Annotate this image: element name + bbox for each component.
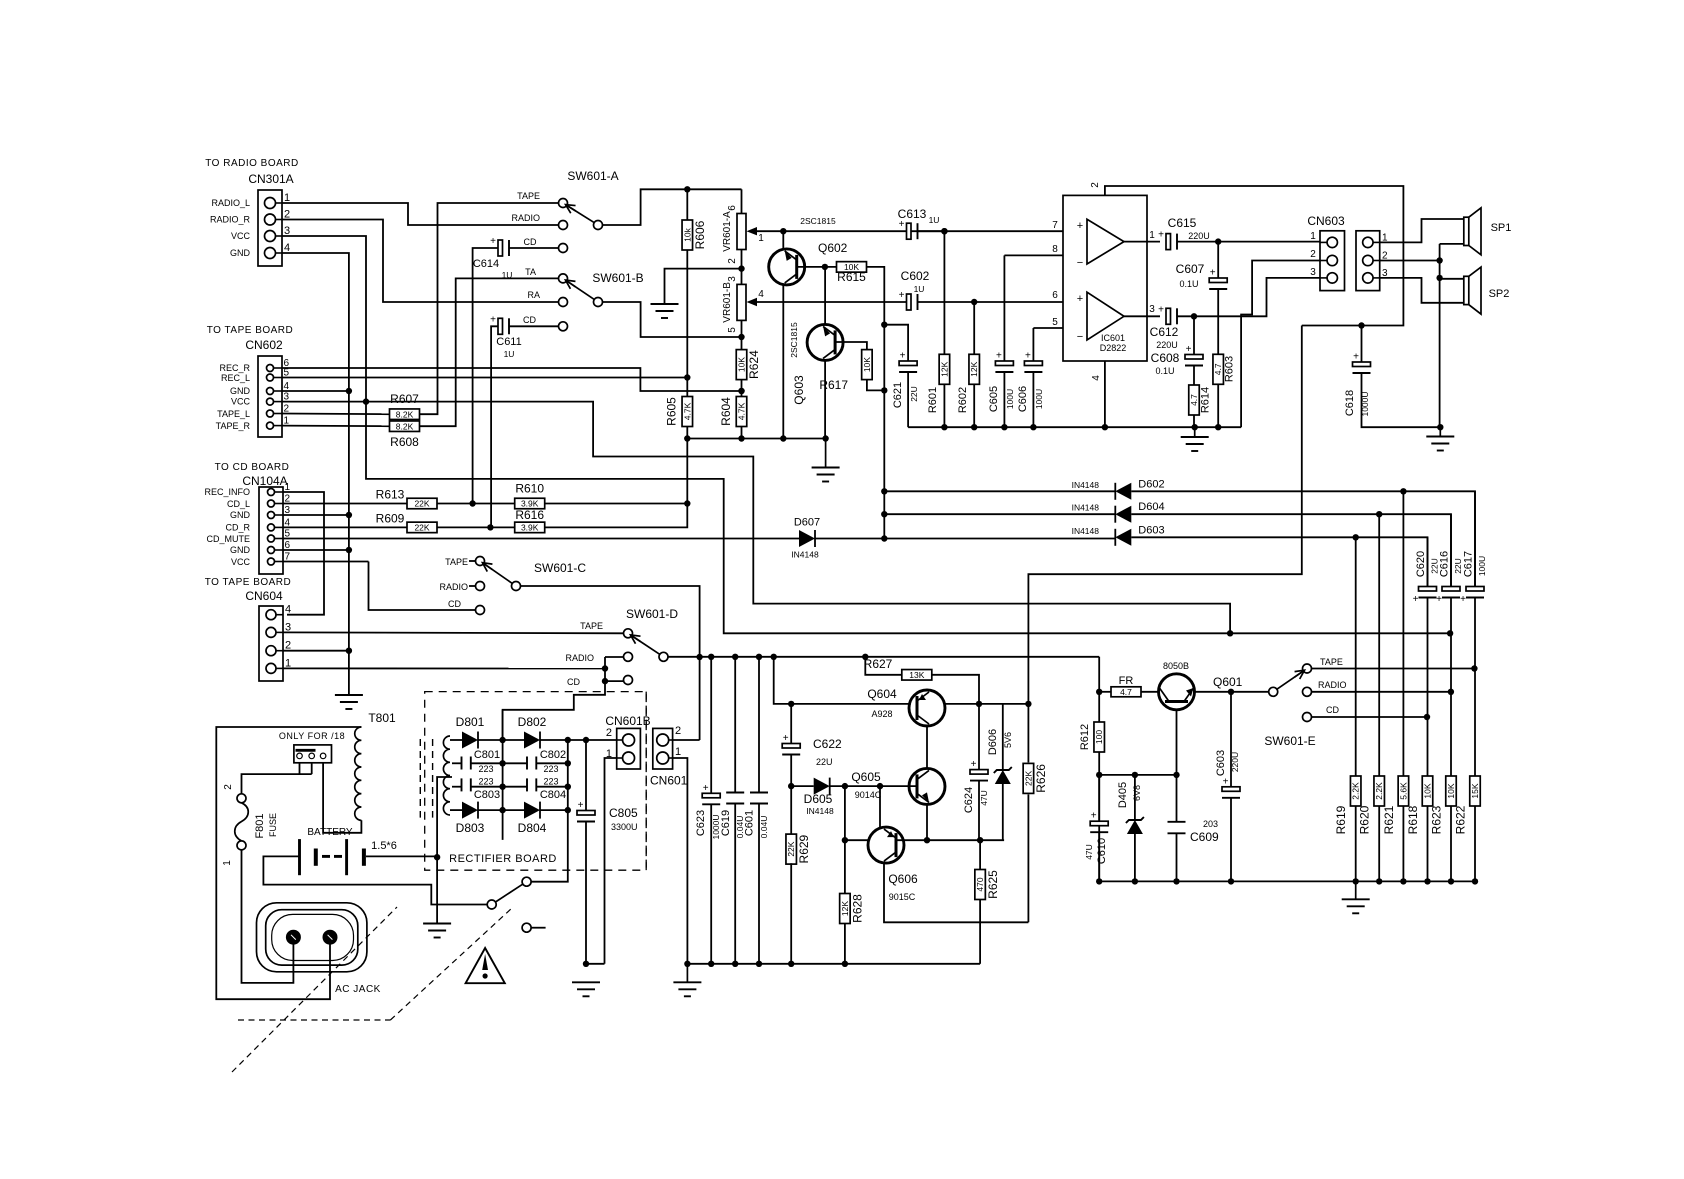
wire Q605 emitter — [926, 804, 928, 840]
wire line A — [478, 737, 524, 743]
svg-text:22K: 22K — [1023, 771, 1033, 786]
wire CN603B pin2 common — [1380, 260, 1440, 262]
svg-text:1U: 1U — [914, 284, 925, 294]
text R619 — [1334, 805, 1348, 834]
wire pin1 out — [1124, 241, 1160, 243]
svg-text:TO CD BOARD: TO CD BOARD — [215, 462, 290, 473]
transformer T801 primary — [355, 727, 362, 820]
wire R602 bottom — [973, 384, 975, 427]
text ONLY FOR /18 — [279, 731, 345, 741]
svg-text:10K: 10K — [737, 357, 747, 372]
svg-text:C802: C802 — [540, 749, 566, 761]
svg-text:IN4148: IN4148 — [1072, 526, 1100, 536]
wire wiper4 line — [752, 301, 908, 303]
text FR — [1119, 675, 1134, 687]
svg-text:22K: 22K — [786, 841, 796, 856]
wire SW601-A common to R606/VR601-A — [603, 186, 742, 225]
svg-text:100U: 100U — [1034, 389, 1044, 409]
wire REC_R — [282, 368, 745, 394]
svg-text:CN601B: CN601B — [605, 714, 650, 728]
wire tape stub sw-c — [469, 560, 476, 562]
wire D604 line — [884, 513, 1115, 515]
svg-text:R629: R629 — [797, 834, 811, 863]
wire jumper stub2 — [311, 763, 313, 774]
svg-text:R618: R618 — [1406, 805, 1420, 834]
diode D603 — [1072, 524, 1165, 546]
wire C608 to R614 — [1193, 366, 1195, 386]
wire Q604 to Q605 — [926, 726, 928, 768]
svg-text:R613: R613 — [376, 488, 405, 502]
wire jumper stub3 to primary — [323, 763, 361, 833]
svg-text:SW601-B: SW601-B — [592, 271, 643, 285]
dashed box RECTIFIER BOARD — [425, 692, 647, 871]
svg-text:0.1U: 0.1U — [1179, 279, 1198, 289]
svg-text:8.2K: 8.2K — [396, 421, 414, 431]
svg-text:RADIO_L: RADIO_L — [211, 198, 250, 208]
capacitor C607 — [1176, 262, 1228, 289]
wire R628 bottom — [844, 924, 846, 964]
svg-text:+: + — [1210, 268, 1216, 279]
transformer T801 core — [420, 739, 432, 818]
svg-text:1: 1 — [758, 233, 764, 244]
pin label CD_MUTE — [206, 534, 250, 544]
text D804 — [518, 821, 547, 835]
diode D803 — [462, 802, 478, 819]
wire R619 column — [1355, 537, 1357, 776]
capacitor C613 — [898, 207, 940, 239]
svg-text:+: + — [1413, 594, 1419, 605]
resistor R605 — [665, 397, 693, 427]
svg-text:+: + — [971, 759, 977, 770]
contact SW601-D RADIO — [624, 652, 633, 661]
text R603 — [1224, 356, 1236, 382]
wire SP common vertical — [1436, 244, 1442, 427]
wire C605 bottom — [1003, 372, 1005, 427]
wire D605 to Q605 base — [830, 783, 916, 789]
svg-text:D2822: D2822 — [1100, 343, 1127, 353]
wire FR to Q601 — [1141, 691, 1159, 693]
power switch contact A — [522, 877, 531, 886]
text CN602 — [245, 338, 283, 352]
text 1.5*6 — [371, 840, 397, 852]
wire R616 out up — [545, 504, 688, 528]
pin 4 wiper — [758, 289, 764, 300]
fuse F801 terminal 2 — [237, 794, 246, 803]
dashed separator CN601 — [645, 692, 647, 871]
svg-text:C618: C618 — [1344, 390, 1356, 416]
pin label TAPE_R — [216, 421, 251, 431]
svg-text:+: + — [783, 733, 789, 744]
text C803 — [474, 789, 500, 801]
svg-text:−: − — [1077, 257, 1083, 269]
resistor R625 — [975, 870, 1000, 900]
svg-text:1U: 1U — [504, 349, 515, 359]
wire C801 line b — [471, 762, 503, 764]
text FUSE — [268, 813, 278, 837]
contact SW601-B RA — [559, 298, 568, 307]
svg-text:C619: C619 — [720, 810, 732, 836]
zener D405 — [1126, 817, 1144, 834]
svg-text:+: + — [578, 800, 584, 811]
wire pin4 down — [1104, 361, 1106, 427]
svg-text:GND: GND — [230, 510, 251, 520]
pot VR601-B — [737, 284, 746, 320]
svg-text:223: 223 — [478, 777, 493, 787]
wire VR601-A bottom to junction — [738, 250, 744, 285]
resistor R620 — [1374, 776, 1385, 806]
wire secondary bottom to D803 — [450, 809, 462, 811]
wire CD_L — [283, 503, 407, 505]
svg-text:1: 1 — [1310, 231, 1316, 242]
svg-text:R616: R616 — [515, 508, 544, 522]
power switch contact NC — [522, 923, 531, 932]
svg-text:R610: R610 — [515, 482, 544, 496]
label RADIO line cn604 — [565, 653, 594, 663]
wire SW601-D riser to rectifier rail — [503, 657, 609, 740]
wire C618 stem — [1361, 326, 1363, 363]
svg-text:8.2K: 8.2K — [396, 409, 414, 419]
wire Q606 emitter up — [879, 786, 881, 827]
wire D602 line right — [1131, 488, 1475, 586]
wire VCC7 down to SW601-C cd — [369, 562, 476, 611]
wire R607 to SW601-A tape — [419, 203, 558, 414]
text VR601-B — [722, 282, 733, 323]
pin 4 rot — [1091, 375, 1102, 381]
wire C803 line — [452, 786, 462, 788]
wire CD line sw-e — [1312, 714, 1431, 720]
wire C621 top link — [884, 325, 908, 361]
svg-text:10k: 10k — [682, 227, 692, 241]
pin 3 vr601b — [727, 276, 738, 282]
svg-text:4.7K: 4.7K — [737, 402, 747, 420]
connector CN601B — [617, 728, 641, 769]
capacitor C621 — [892, 351, 919, 409]
svg-text:C803: C803 — [474, 789, 500, 801]
wire FR left stub — [1099, 691, 1111, 693]
resistor R609 — [376, 511, 437, 532]
svg-text:REC_L: REC_L — [221, 373, 250, 383]
pin 1 fuse — [222, 860, 233, 866]
svg-text:1: 1 — [222, 860, 233, 866]
wire CN601B pin1 down — [605, 758, 617, 964]
dashed callout diagonal left — [232, 907, 397, 1072]
svg-text:C614: C614 — [473, 258, 499, 270]
diode D602 — [1072, 478, 1165, 500]
svg-text:+: + — [1077, 293, 1083, 305]
diode D802 — [524, 732, 540, 749]
wire R627 right down — [932, 675, 979, 704]
capacitor C601 — [744, 793, 770, 839]
wire R626 bottom — [1027, 794, 1029, 922]
connector CN603 A — [1320, 231, 1345, 291]
svg-text:C601: C601 — [744, 810, 756, 836]
contact SW601-A common — [594, 221, 603, 230]
svg-text:SW601-D: SW601-D — [626, 607, 678, 621]
svg-text:GND: GND — [230, 248, 251, 258]
ground q603 emitter — [812, 439, 840, 482]
capacitor C804 — [527, 778, 536, 791]
ground main left bus — [335, 695, 363, 709]
svg-text:+: + — [1025, 351, 1031, 362]
wire Q606 base line — [896, 837, 1004, 843]
contact SW601-A CD — [559, 244, 568, 253]
svg-text:GND: GND — [230, 386, 251, 396]
wire R629 bottom — [790, 863, 792, 964]
switch blade SW601-D — [631, 635, 660, 654]
label RADIO sw-c — [439, 582, 468, 592]
wire D607 line to D603 — [815, 538, 1115, 540]
resistor R606 — [682, 220, 707, 250]
svg-text:+: + — [1158, 230, 1164, 241]
wire C623 column — [710, 657, 712, 794]
svg-text:IC601: IC601 — [1101, 333, 1125, 343]
wire C803 line b — [471, 786, 503, 788]
diode D804 — [524, 802, 540, 819]
wire fuse1 to AC jack — [242, 850, 294, 983]
text IC601 — [1101, 333, 1125, 343]
switch blade SW601-B — [565, 280, 593, 299]
svg-text:AC JACK: AC JACK — [335, 984, 381, 995]
svg-text:TAPE: TAPE — [445, 557, 468, 567]
svg-text:1: 1 — [675, 746, 681, 758]
pin 5 — [1052, 317, 1058, 328]
text C802 — [540, 749, 566, 761]
svg-text:C605: C605 — [988, 386, 1000, 412]
svg-text:2: 2 — [223, 784, 234, 790]
svg-text:REC_R: REC_R — [219, 363, 250, 373]
wire bias bus 438 — [687, 435, 829, 441]
text SW601-B — [592, 271, 643, 285]
svg-text:Q605: Q605 — [851, 770, 881, 784]
text IN4148 d605 — [806, 806, 834, 816]
svg-text:C621: C621 — [892, 382, 904, 408]
wire C802 line — [503, 762, 527, 764]
svg-text:CN604: CN604 — [245, 589, 283, 603]
svg-text:Q603: Q603 — [792, 375, 806, 405]
wire pin8 line — [1004, 254, 1063, 256]
label RADIO sw-a — [511, 213, 540, 223]
resistor R628 — [840, 894, 865, 924]
svg-text:D603: D603 — [1138, 524, 1164, 536]
svg-text:223: 223 — [543, 764, 558, 774]
svg-text:CD: CD — [523, 315, 536, 325]
label TAPE sw-e — [1320, 657, 1343, 667]
svg-text:D804: D804 — [518, 821, 547, 835]
svg-text:47U: 47U — [1084, 844, 1094, 860]
wire R621 column — [1402, 491, 1404, 776]
wire C801 line — [452, 762, 462, 764]
svg-text:10K: 10K — [862, 357, 872, 372]
label TAPE sw-c — [445, 557, 468, 567]
svg-text:R605: R605 — [665, 397, 679, 426]
svg-text:R604: R604 — [719, 397, 733, 426]
svg-text:12K: 12K — [840, 901, 850, 916]
text R617 — [819, 378, 848, 392]
wire R618 column top — [1427, 537, 1429, 586]
svg-text:R623: R623 — [1430, 805, 1444, 834]
label TA — [525, 267, 536, 277]
svg-text:CD: CD — [448, 599, 461, 609]
text R601 — [927, 387, 939, 413]
dashed callout bottom — [238, 1019, 390, 1021]
pin label GND cn104 6 — [230, 545, 251, 555]
switch blade SW601-E — [1277, 670, 1304, 689]
svg-text:D803: D803 — [456, 821, 485, 835]
text VR601-A — [722, 211, 733, 252]
capacitor C803 — [462, 778, 471, 791]
resistor R601 — [939, 354, 950, 384]
capacitor C608 — [1151, 344, 1203, 376]
wire C607 riser — [1217, 242, 1219, 278]
svg-text:3: 3 — [1149, 304, 1155, 315]
capacitor C614 — [473, 236, 513, 280]
svg-text:203: 203 — [1203, 819, 1218, 829]
ground amp — [1181, 427, 1209, 451]
pin 8 — [1052, 244, 1058, 255]
connector CN104A — [259, 482, 291, 574]
text D405 — [1117, 782, 1129, 808]
pin label RADIO_R — [210, 215, 251, 225]
wire Q604 emitter line — [945, 701, 1032, 707]
svg-text:TA: TA — [525, 267, 536, 277]
wire Q606 collector down — [884, 863, 1028, 923]
svg-text:D605: D605 — [804, 792, 833, 806]
wire RADIO line sw-e — [1312, 689, 1455, 695]
svg-text:D801: D801 — [456, 715, 485, 729]
wire C623 bottom — [710, 804, 712, 964]
wire R620 bottom — [1378, 806, 1380, 881]
resistor R621 — [1398, 776, 1409, 806]
svg-text:RADIO_R: RADIO_R — [210, 215, 251, 225]
wire R606 top — [686, 189, 688, 220]
svg-text:TAPE: TAPE — [1320, 657, 1343, 667]
wire C606 bottom — [1032, 372, 1034, 427]
wire C804 line b — [536, 786, 568, 788]
fuse F801 terminal 1 — [237, 841, 246, 850]
svg-text:REC_INFO: REC_INFO — [204, 487, 250, 497]
text R618 — [1406, 805, 1420, 834]
svg-text:100U: 100U — [1477, 556, 1487, 576]
contact SW601-D TAPE — [624, 629, 633, 638]
svg-text:13K: 13K — [909, 670, 924, 680]
svg-text:0.1U: 0.1U — [1155, 366, 1174, 376]
op-amp IC601 channel B — [1077, 292, 1124, 343]
text R623 — [1430, 805, 1444, 834]
text SW601-E — [1264, 734, 1315, 748]
wire Q603 base to R617 — [835, 342, 867, 350]
resistor R619 — [1350, 776, 1361, 806]
wire C611 left down to R609 node — [491, 326, 498, 527]
wire C611 to CD contact swb — [509, 325, 558, 327]
text C804 — [540, 789, 566, 801]
svg-text:FUSE: FUSE — [268, 813, 278, 837]
svg-text:22U: 22U — [1453, 558, 1463, 574]
svg-text:2SC1815: 2SC1815 — [789, 322, 799, 358]
text R622 — [1454, 805, 1468, 834]
svg-text:+: + — [1223, 776, 1229, 787]
wire secondary top to D801 — [450, 739, 462, 741]
svg-text:C617: C617 — [1463, 551, 1475, 577]
svg-text:R620: R620 — [1358, 805, 1372, 834]
wire Q602 top — [782, 231, 784, 249]
wire Q606 base line left — [842, 837, 869, 843]
wire Q601 out — [1195, 689, 1270, 695]
wire C601 column — [758, 657, 760, 793]
transistor Q606 — [868, 827, 918, 902]
label CD sw-c — [448, 599, 461, 609]
svg-text:R622: R622 — [1454, 805, 1468, 834]
text CN301A — [248, 172, 293, 186]
resistor R623 — [1446, 776, 1457, 806]
svg-text:T801: T801 — [368, 711, 396, 725]
op-amp IC601 channel A — [1077, 219, 1124, 269]
resistor R603 — [1213, 354, 1224, 384]
svg-text:CN301A: CN301A — [248, 172, 293, 186]
svg-text:10K: 10K — [1423, 783, 1433, 798]
svg-text:2: 2 — [606, 727, 612, 739]
svg-text:7: 7 — [1052, 220, 1058, 231]
svg-text:+: + — [1091, 811, 1097, 822]
svg-text:223: 223 — [478, 764, 493, 774]
wire C603 top — [1230, 692, 1232, 787]
wire D604 line right — [1131, 511, 1451, 587]
contact SW601-B CD — [559, 322, 568, 331]
svg-text:12K: 12K — [969, 361, 979, 376]
wire TAPE_R — [282, 425, 390, 428]
wire R602 riser — [973, 302, 975, 354]
svg-text:VCC: VCC — [231, 231, 251, 241]
svg-text:9014C: 9014C — [855, 790, 882, 800]
svg-text:6: 6 — [1052, 290, 1058, 301]
wire C614 left down to R613 node — [473, 248, 498, 504]
wire SW601-D radio stub — [605, 656, 624, 658]
label TAPE sw-a — [517, 191, 540, 201]
svg-text:C603: C603 — [1215, 750, 1227, 776]
wire CN104A GND3 — [283, 514, 349, 516]
transistor Q601 — [1159, 674, 1243, 710]
jumper block ONLY FOR /18 — [294, 745, 332, 763]
svg-text:0.04U: 0.04U — [759, 816, 769, 839]
svg-text:D405: D405 — [1117, 782, 1129, 808]
contact SW601-D CD — [624, 676, 633, 685]
wire R627 left — [865, 657, 902, 675]
svg-text:6: 6 — [727, 205, 738, 211]
text D801 — [456, 715, 485, 729]
wire wiper1 line — [752, 228, 948, 234]
resistor R622 — [1470, 776, 1481, 806]
svg-text:R601: R601 — [927, 387, 939, 413]
transistor Q602 — [769, 241, 848, 285]
svg-text:SW601-C: SW601-C — [534, 561, 586, 575]
svg-text:220U: 220U — [1188, 231, 1210, 241]
label CD sw-b — [523, 315, 536, 325]
wire jumper stub1 — [299, 763, 301, 774]
svg-text:CN602: CN602 — [245, 338, 283, 352]
svg-text:R624: R624 — [747, 350, 761, 379]
svg-text:VR601-B: VR601-B — [722, 282, 733, 323]
wire C601 bottom — [758, 804, 760, 964]
svg-text:+: + — [703, 783, 709, 794]
text CN601 — [650, 774, 688, 788]
svg-text:TO TAPE BOARD: TO TAPE BOARD — [205, 577, 292, 588]
text 6V8 — [1132, 785, 1142, 801]
text BATTERY — [307, 827, 353, 838]
svg-text:RADIO: RADIO — [511, 213, 540, 223]
svg-text:4: 4 — [1091, 375, 1102, 381]
value 223 c803 — [478, 777, 493, 787]
wire R609 to R616 — [437, 524, 515, 530]
zener D606 — [994, 767, 1012, 784]
